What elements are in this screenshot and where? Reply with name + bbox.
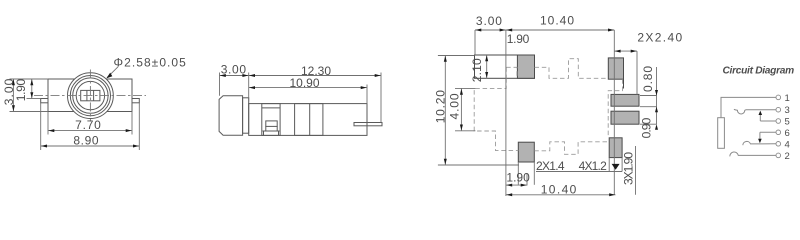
front view: vertical centerline: [89, 70, 91, 122]
footprint dimension 10.20 line: [444, 56, 446, 166]
footprint dimension 1.90 bottom extension line: [526, 174, 528, 186]
dimension 7.70 extension lines: [47, 112, 49, 135]
footprint dimension 2X2.40 line: [614, 50, 637, 52]
circuit: pin 6 terminal circle: [776, 130, 781, 135]
footprint dimension 10.40 top extension line: [613, 30, 615, 195]
svg-text:1.90: 1.90: [14, 79, 28, 102]
footprint dimension 0.80 line: [656, 67, 658, 124]
footprint pad bottom-left extension lines: [517, 162, 519, 185]
side view: neck section: [243, 98, 249, 133]
svg-text:10.40: 10.40: [540, 13, 575, 27]
side view: slot contact small rect: [266, 121, 277, 127]
footprint dimension 2X2.40 extension line: [636, 51, 638, 94]
footprint: pad top-left (grey): [517, 55, 534, 78]
footprint dimension 3X1.90 vertical line: [635, 146, 637, 195]
svg-text:Circuit Diagram: Circuit Diagram: [723, 66, 795, 77]
front view: barrel outer circle: [68, 73, 114, 119]
side view: slot top inner line: [262, 107, 280, 109]
circuit: wire pin 2 with sleeve hook: [730, 152, 776, 156]
svg-text:10.20: 10.20: [433, 89, 447, 123]
footprint pad bottom-right arrow: [612, 164, 620, 170]
footprint dimension 10.40 top line: [506, 29, 614, 31]
dimension 1.90 (front tab offset) extension line: [27, 98, 41, 100]
svg-text:1.90: 1.90: [507, 32, 530, 46]
front view: left side pin tab: [41, 99, 48, 103]
footprint: dashed body outline left side: [474, 78, 518, 150]
front view: jack body rectangle: [48, 79, 132, 112]
front view: contact inner line right: [93, 90, 95, 100]
footprint: pad bottom-right (grey): [609, 138, 622, 158]
dimension 3.00 (front height) extension lines: [10, 78, 49, 80]
svg-text:4: 4: [785, 139, 790, 150]
footprint: pad bottom-left (grey): [518, 142, 534, 162]
svg-text:3: 3: [785, 105, 790, 116]
footprint dimension 10.40 bottom line: [506, 194, 616, 196]
footprint: dashed pin outline inside shield box: [506, 67, 517, 78]
circuit: wire pin 1: [721, 97, 776, 117]
svg-text:4.00: 4.00: [447, 93, 461, 120]
footprint dimension 4.00 line: [460, 88, 462, 130]
dimension 8.90 line: [41, 145, 140, 147]
svg-text:8.90: 8.90: [73, 134, 99, 148]
svg-text:4X1.2: 4X1.2: [579, 159, 607, 173]
footprint: top-left shield box: [475, 55, 535, 78]
svg-text:3.00: 3.00: [221, 62, 247, 76]
circuit: pin 3 terminal circle: [776, 107, 781, 112]
footprint: pad right middle upper (grey): [611, 94, 639, 106]
front view: barrel circle 2: [70, 76, 110, 116]
label diameter 2.58 +/-0.05 leader line: [108, 67, 119, 77]
footprint: pad right middle lower (grey): [611, 111, 639, 124]
front view: barrel circle 3: [73, 78, 108, 113]
side view: slot contact base line: [263, 126, 280, 135]
footprint dimension 2.10 line: [486, 55, 488, 78]
circuit: pin 4 terminal circle: [776, 142, 781, 147]
circuit: wire pin 5: [760, 120, 776, 122]
side dimension 3.00 extension lines: [219, 73, 221, 96]
footprint dimension 4.00 extension lines: [455, 87, 475, 89]
circuit: jack sleeve bar: [718, 118, 725, 149]
svg-text:6: 6: [785, 128, 790, 139]
footprint pad bottom-right extension lines: [608, 158, 610, 172]
front view: center contact rectangle: [81, 90, 100, 100]
side dimension 12.30 extension line: [380, 73, 382, 123]
svg-text:2.10: 2.10: [470, 58, 484, 82]
front view: horizontal centerline: [34, 95, 146, 97]
svg-text:7.70: 7.70: [75, 118, 102, 132]
dimension 1.90 (front) line: [31, 79, 33, 99]
dimension 8.90 extension lines: [40, 103, 42, 150]
footprint bottom reference line (10.20 bottom / labels underline): [438, 164, 519, 166]
side view: contact slot outline: [262, 104, 280, 136]
footprint dimension 10.20 extension line top: [438, 55, 475, 57]
side view: rear solder pin: [354, 123, 382, 126]
circuit: pin 2 terminal circle: [776, 153, 781, 158]
footprint dimension 0.90 extension lines: [640, 106, 657, 108]
footprint dimension 1.90 bottom line: [506, 184, 527, 186]
front view: jack hole circle (diam 2.58): [76, 81, 104, 109]
svg-text:1.90: 1.90: [506, 170, 530, 184]
circuit: switch arrow 6 to 4: [759, 132, 761, 140]
footprint dimension 3.00 line: [475, 29, 506, 31]
side view: middle block: [295, 104, 323, 136]
footprint: dashed body outline top middle: [535, 59, 609, 79]
side dimension 3.00 line: [220, 75, 249, 77]
svg-text:10.90: 10.90: [290, 76, 320, 90]
circuit: wire pin 6: [760, 131, 776, 133]
svg-text:5: 5: [785, 117, 790, 128]
front view: contact inner line left: [86, 90, 88, 100]
side dimension 10.90 line: [249, 87, 367, 89]
side view: flange (front nut) outline: [219, 96, 243, 135]
footprint: pad top-right tail line: [623, 79, 625, 88]
svg-text:10.40: 10.40: [541, 183, 578, 197]
front view: right side pin tab: [132, 99, 139, 103]
svg-text:2: 2: [785, 151, 790, 162]
dimension 3.00 (front height) line: [12, 79, 14, 112]
footprint: dashed body outline right of top-right pad: [608, 79, 622, 138]
footprint dimension 3.00 extension lines: [474, 30, 476, 55]
circuit: pin 1 terminal circle: [776, 95, 781, 100]
svg-text:0.90: 0.90: [640, 117, 654, 138]
svg-text:3.00: 3.00: [476, 14, 503, 28]
svg-text:0.80: 0.80: [641, 65, 655, 92]
side view: main body: [249, 104, 367, 136]
svg-text:Φ2.58±0.05: Φ2.58±0.05: [114, 55, 187, 69]
svg-text:3X1.90: 3X1.90: [622, 152, 636, 185]
side dimension 12.30 line: [249, 75, 381, 77]
footprint: pad top-right (grey): [608, 58, 623, 79]
circuit: wire pin 4 with switch hook: [743, 141, 776, 145]
side dimension 10.90 extension line: [366, 85, 368, 104]
circuit: wire pin 3 with switch hook: [734, 109, 776, 114]
svg-text:2X2.40: 2X2.40: [637, 31, 683, 45]
dimension 7.70 line: [48, 130, 132, 132]
footprint labels underline: [536, 171, 622, 173]
circuit: switch arrow 5 to 3: [759, 114, 761, 122]
svg-text:2X1.4: 2X1.4: [536, 159, 565, 173]
footprint dimension 0.80 extension line: [640, 95, 657, 97]
footprint: dashed body outline bottom middle: [534, 142, 609, 155]
circuit: pin 5 terminal circle: [776, 119, 781, 124]
side view: middle block inner line: [309, 104, 311, 136]
svg-text:1: 1: [785, 93, 790, 104]
